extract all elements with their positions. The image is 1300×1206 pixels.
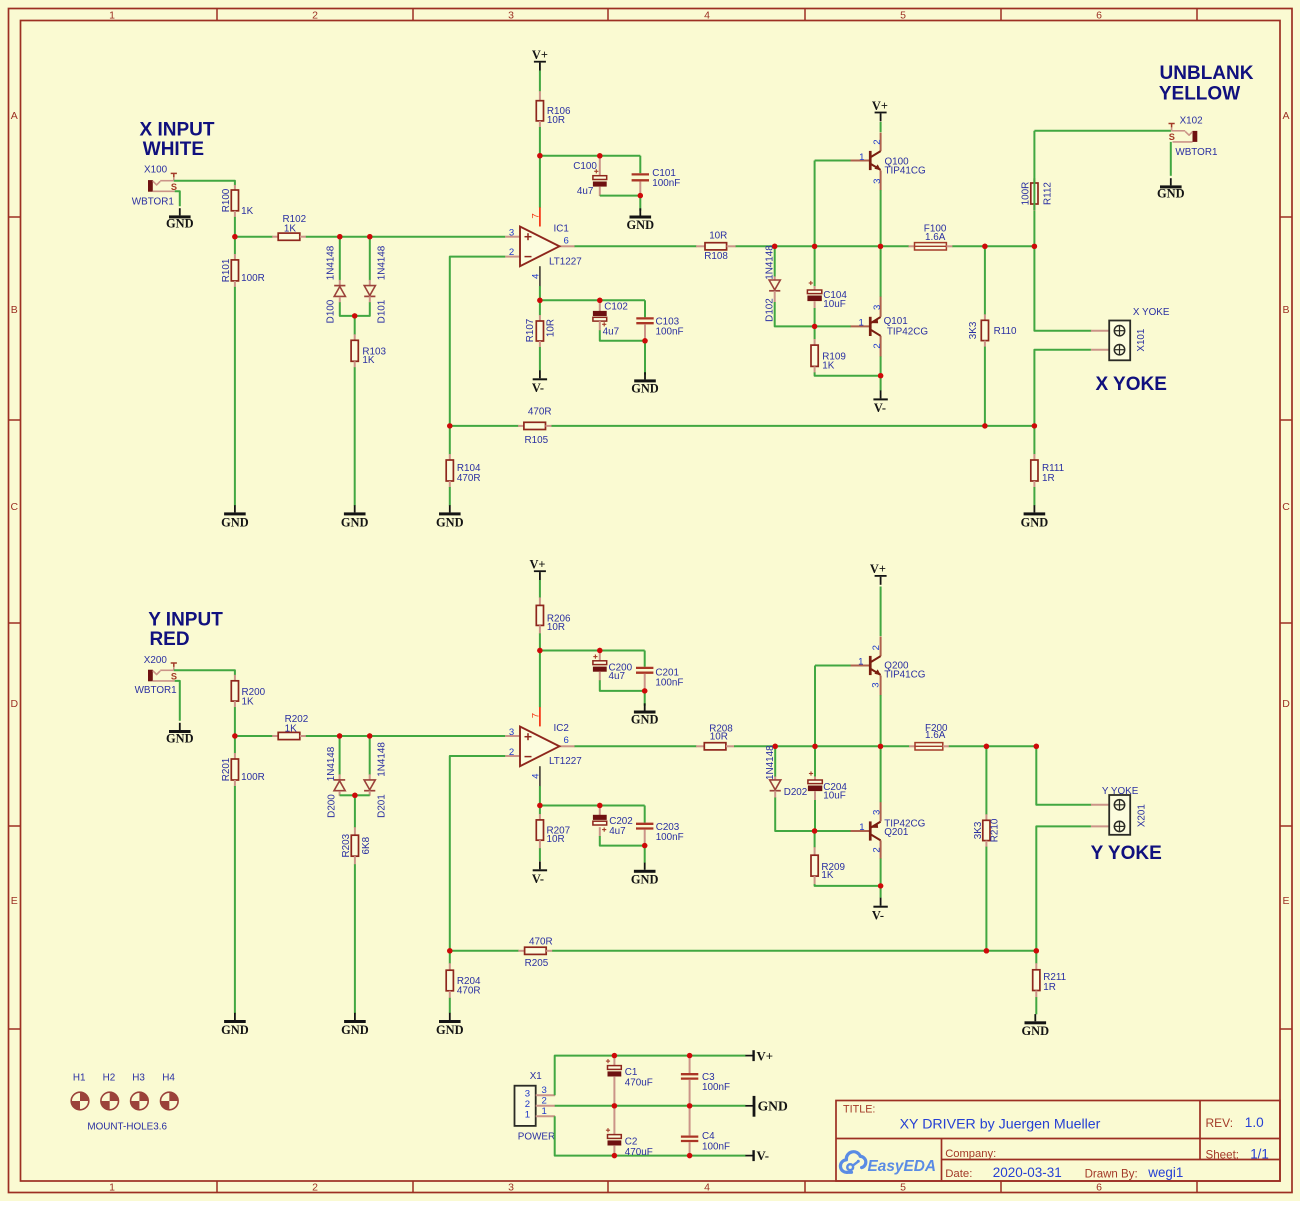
svg-text:470R: 470R xyxy=(457,986,481,997)
wire Q101 collector to node L xyxy=(880,356,882,375)
diode D200 1N4148 xyxy=(339,736,341,775)
svg-text:4u7: 4u7 xyxy=(603,327,619,338)
node I2 junction xyxy=(984,744,989,749)
svg-text:R101: R101 xyxy=(221,258,232,282)
svg-text:TIP41CG: TIP41CG xyxy=(884,670,925,681)
wire R202 to node B2 xyxy=(306,735,340,737)
svg-text:D101: D101 xyxy=(377,299,388,323)
svg-text:10R: 10R xyxy=(546,319,557,337)
junction C3 top xyxy=(687,1053,692,1058)
junction C4 bottom xyxy=(687,1153,692,1158)
svg-text:4u7: 4u7 xyxy=(609,671,625,682)
wire node J2 to X201 pin1 xyxy=(1036,746,1091,805)
ground GND below C101 xyxy=(639,208,641,215)
svg-text:GND: GND xyxy=(1157,187,1185,201)
svg-text:100nF: 100nF xyxy=(652,178,680,189)
diode D100 1N4148 xyxy=(339,237,341,281)
junction C103 bottom xyxy=(642,338,647,343)
svg-text:2: 2 xyxy=(871,847,882,852)
ground GND at X100 xyxy=(179,208,181,215)
svg-text:6: 6 xyxy=(1096,9,1102,21)
node A junction xyxy=(232,234,237,239)
node M2 junction xyxy=(447,948,452,953)
svg-text:IC2: IC2 xyxy=(554,723,569,734)
svg-text:D100: D100 xyxy=(325,299,336,323)
svg-text:3: 3 xyxy=(542,1085,547,1096)
svg-text:2020-03-31: 2020-03-31 xyxy=(993,1165,1062,1180)
capacitor C104 10uF xyxy=(814,246,816,286)
svg-text:R201: R201 xyxy=(221,757,232,781)
capacitor C201 100nF xyxy=(644,651,646,667)
svg-text:X101: X101 xyxy=(1136,328,1147,352)
wire R104 to GND xyxy=(449,487,451,506)
node L junction xyxy=(878,373,883,378)
svg-text:D202: D202 xyxy=(784,787,808,798)
svg-text:Y YOKE: Y YOKE xyxy=(1091,843,1162,864)
wire X1 pin2 GND rail xyxy=(555,1105,746,1107)
svg-text:WBTOR1: WBTOR1 xyxy=(135,685,178,696)
svg-text:1: 1 xyxy=(109,9,115,21)
transistor Q200 TIP41CG xyxy=(814,666,816,747)
svg-text:470uF: 470uF xyxy=(625,1078,653,1089)
svg-text:1: 1 xyxy=(525,1109,530,1120)
resistor R203 6K8 xyxy=(354,795,356,827)
svg-text:3: 3 xyxy=(508,1182,514,1194)
wire V+ to R106 xyxy=(539,71,541,92)
resistor R100 xyxy=(234,185,236,191)
wire Q100 emitter to node H xyxy=(880,190,882,246)
svg-text:S: S xyxy=(1169,132,1175,142)
svg-text:1.6A: 1.6A xyxy=(925,232,946,243)
svg-text:1: 1 xyxy=(859,152,864,163)
svg-text:GND: GND xyxy=(341,1023,369,1037)
wire Q200 emitter to node H2 xyxy=(880,695,882,746)
wire D102 to base row xyxy=(775,302,815,326)
svg-text:4: 4 xyxy=(704,1182,710,1194)
capacitor C2 470uF xyxy=(613,1106,615,1135)
node A2 junction xyxy=(232,733,237,738)
svg-text:2: 2 xyxy=(542,1096,547,1107)
svg-text:V+: V+ xyxy=(870,562,886,576)
svg-text:7: 7 xyxy=(530,713,541,718)
svg-text:MOUNT-HOLE3.6: MOUNT-HOLE3.6 xyxy=(87,1122,167,1133)
resistor R205 470R xyxy=(518,950,525,952)
connector X1 POWER xyxy=(515,1086,536,1126)
wire D101 to node D xyxy=(355,302,370,316)
svg-text:2: 2 xyxy=(872,343,883,348)
feedback rail wire xyxy=(450,425,519,427)
wire R206 to IC2 pin7 xyxy=(539,633,541,707)
wire C101 to GND xyxy=(639,196,641,211)
wire Q101 emitter to node H xyxy=(880,246,882,296)
resistor R207 xyxy=(539,806,541,815)
rail wire R205 to node O2 xyxy=(552,950,1036,952)
node O junction xyxy=(1032,423,1037,428)
wire R204 to GND xyxy=(449,998,451,1013)
svg-text:Y YOKE: Y YOKE xyxy=(1102,786,1139,797)
junction at C200 xyxy=(597,648,602,653)
svg-text:1K: 1K xyxy=(241,206,253,217)
svg-text:C1: C1 xyxy=(625,1067,638,1078)
wire Q201 emitter to node H2 xyxy=(880,746,882,802)
svg-text:10uF: 10uF xyxy=(823,299,846,310)
svg-text:470uF: 470uF xyxy=(625,1147,653,1158)
wire node to C201 xyxy=(540,650,645,652)
svg-text:V-: V- xyxy=(532,872,544,886)
wire F100 to node I xyxy=(952,245,1034,247)
transistor Q101 TIP42CG xyxy=(815,325,851,327)
junction C2 bottom xyxy=(612,1153,617,1158)
svg-text:RED: RED xyxy=(149,629,189,650)
svg-text:D: D xyxy=(1282,698,1290,710)
svg-text:1N4148: 1N4148 xyxy=(765,745,776,780)
resistor R208 xyxy=(696,745,705,747)
svg-text:R203: R203 xyxy=(341,833,352,857)
resistor R204 470R xyxy=(449,951,451,964)
svg-text:6: 6 xyxy=(1096,1182,1102,1194)
wire R108 to node F xyxy=(736,245,775,247)
svg-text:X YOKE: X YOKE xyxy=(1133,307,1170,318)
wire IC1 pin2 feedback xyxy=(450,257,506,426)
svg-text:R110: R110 xyxy=(994,326,1017,337)
svg-text:1R: 1R xyxy=(1043,982,1056,993)
resistor R107 xyxy=(539,300,541,315)
svg-text:3: 3 xyxy=(509,227,514,238)
svg-text:100R: 100R xyxy=(241,772,265,783)
IC2 pin 7 xyxy=(539,707,541,726)
svg-text:TIP42CG: TIP42CG xyxy=(887,327,928,338)
wire node E2 to C203 xyxy=(540,805,645,807)
node N junction xyxy=(982,423,987,428)
svg-text:YELLOW: YELLOW xyxy=(1159,83,1240,104)
wire R101 to GND xyxy=(234,287,236,506)
svg-text:WBTOR1: WBTOR1 xyxy=(132,196,175,207)
wire R210 to rail Y xyxy=(985,847,987,951)
svg-text:2: 2 xyxy=(871,645,882,650)
fuse F100 1.6A xyxy=(909,245,915,247)
IC2 pin 4 xyxy=(539,766,541,786)
svg-text:TITLE:: TITLE: xyxy=(843,1104,875,1116)
wire C202 to C203 bottom xyxy=(600,836,645,846)
svg-text:GND: GND xyxy=(631,713,659,727)
connector X200 jack WBTOR1 xyxy=(148,670,153,682)
wire C201 to GND xyxy=(644,691,646,706)
wire X200 T to R200 xyxy=(174,670,235,675)
svg-text:D: D xyxy=(11,698,19,710)
wire node B2 to node C2 xyxy=(340,735,370,737)
svg-text:10R: 10R xyxy=(547,622,565,633)
wire node H2 to F200 xyxy=(881,745,910,747)
power net V+ right xyxy=(745,1055,753,1057)
wire R102 to node B xyxy=(306,236,340,238)
wire node J to X101 pin1 xyxy=(1034,246,1091,330)
feedback rail wire Y xyxy=(450,950,519,952)
svg-text:IC1: IC1 xyxy=(554,224,570,235)
node N2 junction xyxy=(984,948,989,953)
svg-text:A: A xyxy=(11,110,18,122)
svg-text:2: 2 xyxy=(312,9,318,21)
ground GND below C201 xyxy=(644,703,646,710)
resistor R210 3K3 xyxy=(985,746,987,814)
wire R106 to IC1 pin7 xyxy=(539,127,541,208)
resistor R111 1R xyxy=(1033,426,1035,455)
svg-text:GND: GND xyxy=(627,218,655,232)
svg-text:4u7: 4u7 xyxy=(577,186,593,197)
svg-text:B: B xyxy=(11,304,18,316)
ground GND below R104 xyxy=(449,505,451,512)
wire IC2 pin2 feedback xyxy=(450,756,506,951)
svg-text:GND: GND xyxy=(166,731,194,745)
node J2 junction xyxy=(1034,744,1039,749)
svg-text:WBTOR1: WBTOR1 xyxy=(1175,147,1218,158)
mount hole H1 xyxy=(71,1092,89,1110)
junction C101 bottom xyxy=(638,193,643,198)
wire R201 to GND xyxy=(234,786,236,1013)
node B2 junction xyxy=(337,733,342,738)
wire X100 S to GND xyxy=(175,191,180,206)
svg-text:5: 5 xyxy=(900,1182,906,1194)
svg-text:3: 3 xyxy=(508,9,514,21)
svg-text:GND: GND xyxy=(1022,1024,1050,1038)
svg-text:470R: 470R xyxy=(529,936,553,947)
transistor Q201 TIP42CG xyxy=(815,830,851,832)
power net GND right xyxy=(745,1105,753,1107)
connector X102 jack WBTOR1 xyxy=(1193,131,1198,142)
svg-text:REV:: REV: xyxy=(1206,1116,1234,1130)
resistor R101 xyxy=(234,237,236,255)
svg-text:R112: R112 xyxy=(1042,182,1053,205)
svg-text:V-: V- xyxy=(874,401,886,415)
svg-text:1K: 1K xyxy=(242,696,254,707)
capacitor C1 470uF xyxy=(613,1056,615,1066)
svg-text:3K3: 3K3 xyxy=(968,321,979,339)
svg-text:1.6A: 1.6A xyxy=(925,730,946,741)
svg-text:10R: 10R xyxy=(547,834,565,845)
wire C200 to C201 bottom xyxy=(600,680,645,691)
wire R112 to X102 xyxy=(1033,131,1035,210)
svg-text:3K3: 3K3 xyxy=(973,821,984,839)
svg-text:GND: GND xyxy=(341,516,369,530)
wire C104 to base row xyxy=(814,308,816,326)
svg-text:D201: D201 xyxy=(377,794,388,818)
svg-text:H4: H4 xyxy=(162,1072,175,1083)
wire node L to V- xyxy=(880,376,882,391)
svg-text:R205: R205 xyxy=(525,958,549,969)
svg-text:C2: C2 xyxy=(625,1136,638,1147)
diode D102 1N4148 xyxy=(774,246,776,276)
node G2 junction xyxy=(812,744,817,749)
power net V- below Q201 xyxy=(880,898,882,906)
svg-text:Sheet:: Sheet: xyxy=(1206,1148,1240,1161)
svg-text:X100: X100 xyxy=(144,165,168,176)
resistor R109 xyxy=(814,326,816,339)
svg-text:LT1227: LT1227 xyxy=(549,756,582,767)
wire D202 to base row Y xyxy=(775,798,814,832)
svg-text:10R: 10R xyxy=(710,732,728,743)
svg-text:GND: GND xyxy=(436,1023,464,1037)
resistor R201 xyxy=(234,736,236,753)
junction C1 bottom xyxy=(612,1103,617,1108)
svg-text:1N4148: 1N4148 xyxy=(326,746,337,781)
power net V+ above Q200 xyxy=(880,587,882,637)
svg-text:Drawn By:: Drawn By: xyxy=(1085,1168,1138,1180)
power net V- right xyxy=(745,1155,753,1157)
node O2 junction xyxy=(1034,948,1039,953)
svg-text:X YOKE: X YOKE xyxy=(1095,374,1166,395)
svg-text:3: 3 xyxy=(872,179,883,184)
wire R200 to node A2 xyxy=(234,707,236,736)
wire X100 T to R100 xyxy=(174,181,235,186)
node F junction xyxy=(772,244,777,249)
wire R211 to GND xyxy=(1035,997,1037,1014)
capacitor C203 100nF xyxy=(644,806,646,823)
svg-text:4: 4 xyxy=(530,273,541,279)
diode D101 1N4148 xyxy=(369,237,371,281)
mount hole H3 xyxy=(131,1092,149,1110)
capacitor C3 100nF xyxy=(689,1056,691,1073)
svg-text:EasyEDA: EasyEDA xyxy=(868,1158,936,1175)
node C2 junction xyxy=(367,733,372,738)
wire R207 to V- xyxy=(539,848,541,861)
ground GND below R201 xyxy=(234,1013,236,1020)
diode D201 1N4148 xyxy=(369,736,371,775)
ground GND at X102 xyxy=(1170,178,1172,185)
svg-text:C102: C102 xyxy=(604,301,628,312)
svg-text:H2: H2 xyxy=(103,1072,116,1083)
svg-text:V+: V+ xyxy=(529,558,545,572)
node F2 junction xyxy=(773,744,778,749)
svg-text:1: 1 xyxy=(859,317,864,328)
wire node G to node H xyxy=(815,245,881,247)
svg-text:B: B xyxy=(1282,304,1289,316)
wire IC1 pin4 to node E xyxy=(539,286,541,300)
resistor R105 470R xyxy=(518,425,524,427)
svg-text:100R: 100R xyxy=(1021,182,1032,206)
svg-text:10R: 10R xyxy=(709,231,727,242)
wire node H to F100 xyxy=(881,245,910,247)
ground GND below C203 xyxy=(644,863,646,870)
svg-text:Date:: Date: xyxy=(945,1168,972,1180)
svg-text:3: 3 xyxy=(872,305,883,310)
svg-text:GND: GND xyxy=(1021,516,1049,530)
svg-text:GND: GND xyxy=(166,217,194,231)
svg-text:R100: R100 xyxy=(221,188,232,212)
svg-text:1N4148: 1N4148 xyxy=(325,245,336,280)
wire X102 S to GND xyxy=(1170,142,1172,176)
svg-text:3: 3 xyxy=(525,1088,530,1099)
wire X1 pin1 to V- rail xyxy=(555,1116,746,1155)
svg-text:1R: 1R xyxy=(1042,473,1055,484)
wire D201 to node D2 xyxy=(355,794,370,796)
capacitor C202 4u7 xyxy=(599,806,601,816)
svg-text:2: 2 xyxy=(872,139,883,144)
svg-text:1N4148: 1N4148 xyxy=(765,245,776,280)
svg-text:X102: X102 xyxy=(1180,115,1203,126)
svg-text:C: C xyxy=(1282,501,1290,513)
wire node E to C103 xyxy=(540,299,645,301)
wire node C2 to IC2 pin3 xyxy=(370,735,506,737)
svg-text:10uF: 10uF xyxy=(823,790,846,801)
wire X200 S to GND xyxy=(175,681,180,721)
svg-text:V+: V+ xyxy=(532,48,548,62)
wire R203 to GND xyxy=(354,864,356,1013)
power net V- below Q101 xyxy=(880,390,882,398)
node V+ rail junction Y xyxy=(537,648,542,653)
wire D100 to node D xyxy=(340,302,355,316)
wire node F2 to node G2 xyxy=(775,745,815,747)
wire C100 to C101 bottom xyxy=(600,195,641,197)
node E2 junction xyxy=(537,803,542,808)
wire R103 to GND xyxy=(354,367,356,505)
wire D200 to node D2 xyxy=(340,794,355,796)
svg-text:1.0: 1.0 xyxy=(1245,1115,1264,1130)
wire node C to IC1 pin3 xyxy=(370,236,506,238)
capacitor C4 100nF xyxy=(689,1106,691,1136)
svg-text:6: 6 xyxy=(564,735,569,746)
op-amp IC1 LT1227 xyxy=(505,236,520,238)
resistor R200 xyxy=(234,675,236,681)
ground GND below R111 xyxy=(1033,505,1035,512)
svg-text:R108: R108 xyxy=(704,251,728,262)
diode D202 1N4148 xyxy=(774,746,776,777)
svg-text:100nF: 100nF xyxy=(656,832,684,843)
node L2 junction xyxy=(878,883,883,888)
svg-text:LT1227: LT1227 xyxy=(549,257,582,268)
resistor R102 xyxy=(235,236,273,238)
svg-text:Q201: Q201 xyxy=(884,827,909,838)
wire IC2 output to R208 xyxy=(575,745,697,747)
wire C203 to GND xyxy=(644,846,646,863)
svg-text:1K: 1K xyxy=(362,355,374,366)
svg-text:XY DRIVER by Juergen Mueller: XY DRIVER by Juergen Mueller xyxy=(900,1117,1101,1133)
mount hole H2 xyxy=(101,1092,119,1110)
wire Q201 collector to node L2 xyxy=(880,859,882,886)
wire node G2 to node H2 xyxy=(815,745,881,747)
svg-text:WHITE: WHITE xyxy=(143,139,204,160)
svg-text:E: E xyxy=(11,895,18,907)
svg-text:3: 3 xyxy=(872,810,883,815)
power net V- below R107 xyxy=(539,370,541,378)
resistor R209 xyxy=(814,831,816,848)
svg-text:X200: X200 xyxy=(144,655,168,666)
svg-text:V-: V- xyxy=(532,381,544,395)
svg-text:1/1: 1/1 xyxy=(1250,1146,1269,1161)
svg-text:C: C xyxy=(11,501,19,513)
svg-text:1: 1 xyxy=(542,1106,547,1117)
node H2 junction xyxy=(878,744,883,749)
svg-text:1K: 1K xyxy=(285,723,297,734)
svg-text:GND: GND xyxy=(221,1023,249,1037)
svg-text:100nF: 100nF xyxy=(702,1142,730,1153)
svg-text:1K: 1K xyxy=(284,223,296,234)
resistor R112 100R xyxy=(1033,178,1035,246)
node M junction xyxy=(447,423,452,428)
svg-text:1: 1 xyxy=(109,1182,115,1194)
svg-text:GND: GND xyxy=(631,382,659,396)
node E junction xyxy=(537,298,542,303)
svg-text:V+: V+ xyxy=(872,99,888,113)
wire R209 to node L2 xyxy=(815,884,881,886)
capacitor C101 100nF xyxy=(639,156,641,174)
svg-text:H1: H1 xyxy=(73,1072,86,1083)
svg-text:UNBLANK: UNBLANK xyxy=(1160,63,1254,84)
capacitor C103 100nF xyxy=(644,300,646,317)
transistor Q100 TIP41CG xyxy=(814,161,816,247)
svg-text:5: 5 xyxy=(900,9,906,21)
ground GND below R211 xyxy=(1034,1014,1036,1021)
wire X101 pin2 to rail xyxy=(1034,350,1091,426)
ground GND at X200 xyxy=(179,723,181,730)
